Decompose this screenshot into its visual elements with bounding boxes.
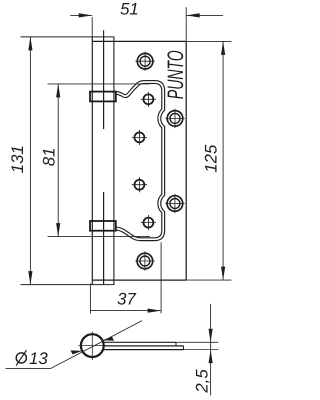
dim 2,5 arrow lower (points up) bbox=[209, 350, 213, 364]
svg-text:51: 51 bbox=[120, 0, 139, 19]
side view barrel circle bbox=[81, 334, 104, 357]
dim 2,5 ext line bottom bbox=[184, 349, 219, 351]
dim d13 diameter symbol bbox=[16, 350, 26, 365]
dim 37 line bbox=[90, 310, 161, 312]
side view upper leaf top line bbox=[103, 341, 176, 343]
dim 125 ext line top bbox=[186, 40, 231, 42]
svg-text:13: 13 bbox=[29, 349, 48, 368]
screw hole big right lower bbox=[165, 194, 184, 213]
dim d13 leader diagonal line bbox=[50, 321, 142, 369]
pin stub above knuckle bbox=[103, 30, 105, 37]
screw hole big top bbox=[135, 52, 154, 71]
dim 81 arrow top (points up) bbox=[56, 84, 60, 98]
knuckle bottom edge line A' (also ext line of dim 131) bbox=[21, 284, 115, 286]
dim 81 ext line top bbox=[48, 83, 151, 85]
dim 2,5 line vertical bbox=[210, 304, 212, 396]
dim 37 ext line left bbox=[89, 284, 91, 314]
barrel left edge bbox=[91, 37, 93, 285]
svg-text:131: 131 bbox=[8, 145, 27, 173]
dim 51 arrow left (points right) bbox=[79, 13, 93, 17]
side view lower leaf bottom line bbox=[103, 349, 184, 351]
svg-text:81: 81 bbox=[39, 148, 58, 167]
dim d13 arrow upper-right (points down-left to circle) bbox=[102, 337, 114, 341]
side view lower leaf end cap bbox=[183, 346, 185, 350]
screw hole big right upper bbox=[165, 109, 184, 128]
hinge plate outer leaf top edge bbox=[92, 40, 186, 42]
screw hole small 2 bbox=[132, 130, 147, 145]
dim 81 line bbox=[57, 84, 59, 237]
dim 2,5 ext line top bbox=[176, 341, 218, 343]
dim d13 text shelf line bbox=[6, 368, 51, 370]
svg-text:37: 37 bbox=[117, 289, 136, 308]
side view barrel centerline vertical bbox=[91, 332, 93, 361]
dim 37 ext line right bbox=[160, 242, 162, 313]
dim 125 arrow bottom (points down) bbox=[221, 267, 225, 281]
hinge plate outer leaf bottom edge bbox=[92, 279, 186, 281]
barrel right edge upper segment bbox=[103, 37, 105, 129]
side view barrel centerline horizontal bbox=[79, 345, 107, 347]
screw hole small 4 bbox=[141, 215, 156, 230]
dim 131 line bbox=[29, 37, 31, 285]
side view middle leaf line bbox=[104, 345, 184, 347]
dim 131 arrow bottom (points down) bbox=[28, 271, 32, 285]
screw hole small 3 bbox=[132, 177, 147, 192]
svg-text:125: 125 bbox=[201, 144, 220, 173]
dim 125 ext line bottom bbox=[186, 279, 231, 281]
hinge plate left edge with top and bottom steps bbox=[113, 37, 115, 285]
inner leaf contour (double line drawn as thick stroke + white core) bbox=[116, 82, 164, 239]
dim 51 arrow right (points left) bbox=[186, 13, 200, 17]
dim 81 arrow bottom (points down) bbox=[56, 223, 60, 237]
dim 81 ext line bottom bbox=[48, 236, 151, 238]
dim 51 line right part bbox=[186, 14, 223, 16]
dim 51 ext line right / plate edge extension bbox=[185, 7, 187, 41]
svg-text:2,5: 2,5 bbox=[193, 369, 212, 394]
screw hole big bottom bbox=[135, 251, 154, 270]
dim 51 ext line left bbox=[91, 17, 93, 37]
dim 131 arrow top (points up) bbox=[28, 37, 32, 51]
svg-text:PUNTO: PUNTO bbox=[163, 50, 188, 99]
hinge plate right edge bbox=[185, 41, 187, 280]
bottom knuckle collar bbox=[90, 221, 116, 231]
side view upper leaf end cap bbox=[175, 342, 177, 346]
dim d13 arrow lower-left (points up-right to circle) bbox=[71, 350, 83, 354]
dim 125 line bbox=[222, 41, 224, 280]
dim 37 arrow right (points right) bbox=[148, 309, 162, 313]
dim 125 arrow top (points up) bbox=[221, 41, 225, 55]
knuckle top edge line A (also ext line of dim 131) bbox=[21, 36, 115, 38]
dim 2,5 arrow upper (points down) bbox=[209, 329, 213, 343]
barrel right edge lower segment bbox=[103, 192, 105, 285]
top knuckle collar bbox=[90, 92, 116, 102]
screw hole small 1 bbox=[141, 92, 156, 107]
dim 51 line left part bbox=[70, 14, 92, 16]
